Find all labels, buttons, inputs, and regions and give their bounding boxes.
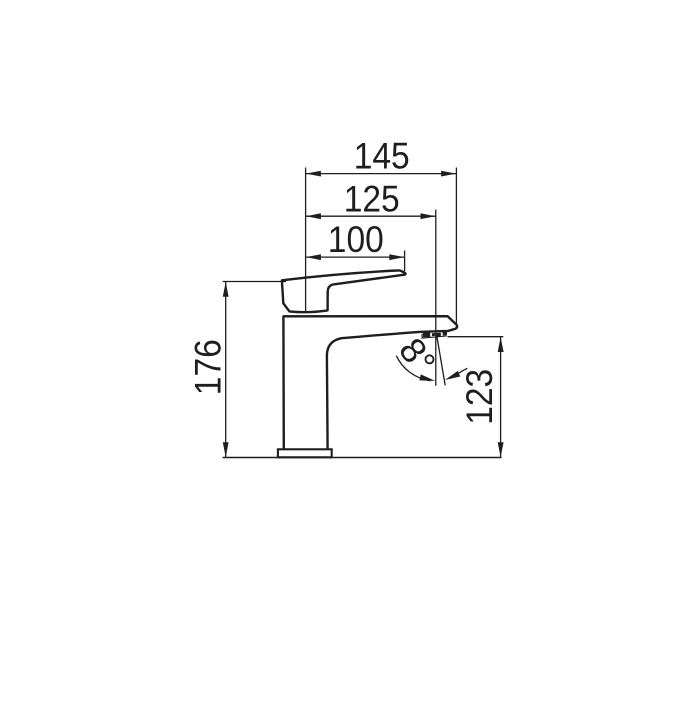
arrow 176 bottom (223, 442, 229, 457)
aerator slot 1 (423, 332, 431, 337)
svg-text:176: 176 (188, 339, 229, 395)
aerator slot 4 (443, 331, 447, 336)
arrow 125 left (306, 213, 321, 219)
arrow 176 top (223, 282, 229, 297)
angle arc left (396, 356, 430, 381)
extension line left (x=305.6) (305, 168, 307, 312)
arrow 123 top (498, 337, 504, 352)
arrow 125 right (421, 213, 436, 219)
arrow 123 bottom (498, 442, 504, 457)
aerator bottom outline (422, 334, 447, 338)
dimension line 100 (306, 256, 405, 258)
dimension line 123 (500, 337, 502, 458)
spout angle slant line 8 deg (437, 337, 445, 386)
faucet body outline (283, 316, 457, 449)
svg-text:125: 125 (344, 178, 400, 219)
arrow 100 right (389, 254, 404, 260)
dimension line 125 (306, 215, 436, 217)
arrow 100 left (306, 254, 321, 260)
svg-text:100: 100 (328, 219, 384, 260)
base flange (278, 449, 332, 457)
arrow 145 right (441, 171, 456, 177)
extension line 123 top (448, 336, 504, 338)
dimension line 176 (225, 282, 227, 458)
svg-text:145: 145 (354, 135, 410, 176)
aerator slot 3 (436, 333, 441, 337)
angle leader right tail (457, 368, 467, 374)
dimension line 145 (306, 173, 457, 175)
arrow 145 left (306, 171, 321, 177)
faucet handle lever (282, 270, 406, 312)
aerator slot 2 (432, 333, 435, 336)
extension line 176 top (223, 281, 286, 283)
extension line 125 right / spout centerline (435, 210, 437, 386)
angle arc left arrowhead (419, 374, 435, 381)
extension line 145 right (455, 168, 457, 324)
angle leader right arrowhead (445, 371, 460, 380)
ground line (223, 457, 502, 459)
extension line 100 right (404, 251, 406, 272)
svg-text:123: 123 (459, 369, 500, 425)
